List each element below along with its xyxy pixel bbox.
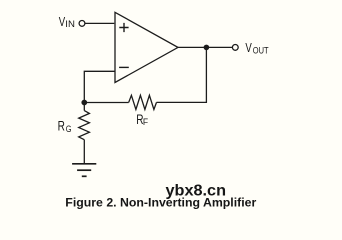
node VOUT terminal circle <box>232 45 238 51</box>
junction node A dot <box>81 100 87 106</box>
svg-text:Figure 2. Non-Inverting Amplif: Figure 2. Non-Inverting Amplifier <box>65 195 256 209</box>
label VOUT <box>245 42 269 56</box>
node VIN terminal circle <box>79 21 85 27</box>
wire RF right to corner and up to output node <box>157 47 207 102</box>
wire RG bottom to ground <box>83 140 85 164</box>
wire node A down to RG <box>83 103 85 111</box>
op-amp + input symbol <box>119 23 128 32</box>
resistor RG zigzag <box>79 111 90 140</box>
resistor RF zigzag <box>129 95 157 109</box>
junction output node dot <box>204 45 210 51</box>
label RG <box>58 118 72 134</box>
label RF <box>136 111 148 127</box>
label VIN <box>59 16 75 30</box>
ground symbol <box>72 164 96 177</box>
op-amp - input symbol <box>119 66 129 68</box>
svg-text:V: V <box>245 42 252 56</box>
op-amp U1 triangle <box>115 12 178 82</box>
svg-text:R: R <box>58 118 65 134</box>
wire node A to RF left <box>84 102 128 104</box>
wire VIN to op-amp + input <box>85 22 114 24</box>
svg-text:IN: IN <box>65 19 75 29</box>
svg-text:G: G <box>66 124 72 134</box>
wire feedback from node A to - input <box>84 71 114 102</box>
wire op-amp output to VOUT terminal <box>178 46 232 48</box>
svg-text:OUT: OUT <box>253 46 269 56</box>
svg-text:F: F <box>143 117 149 127</box>
